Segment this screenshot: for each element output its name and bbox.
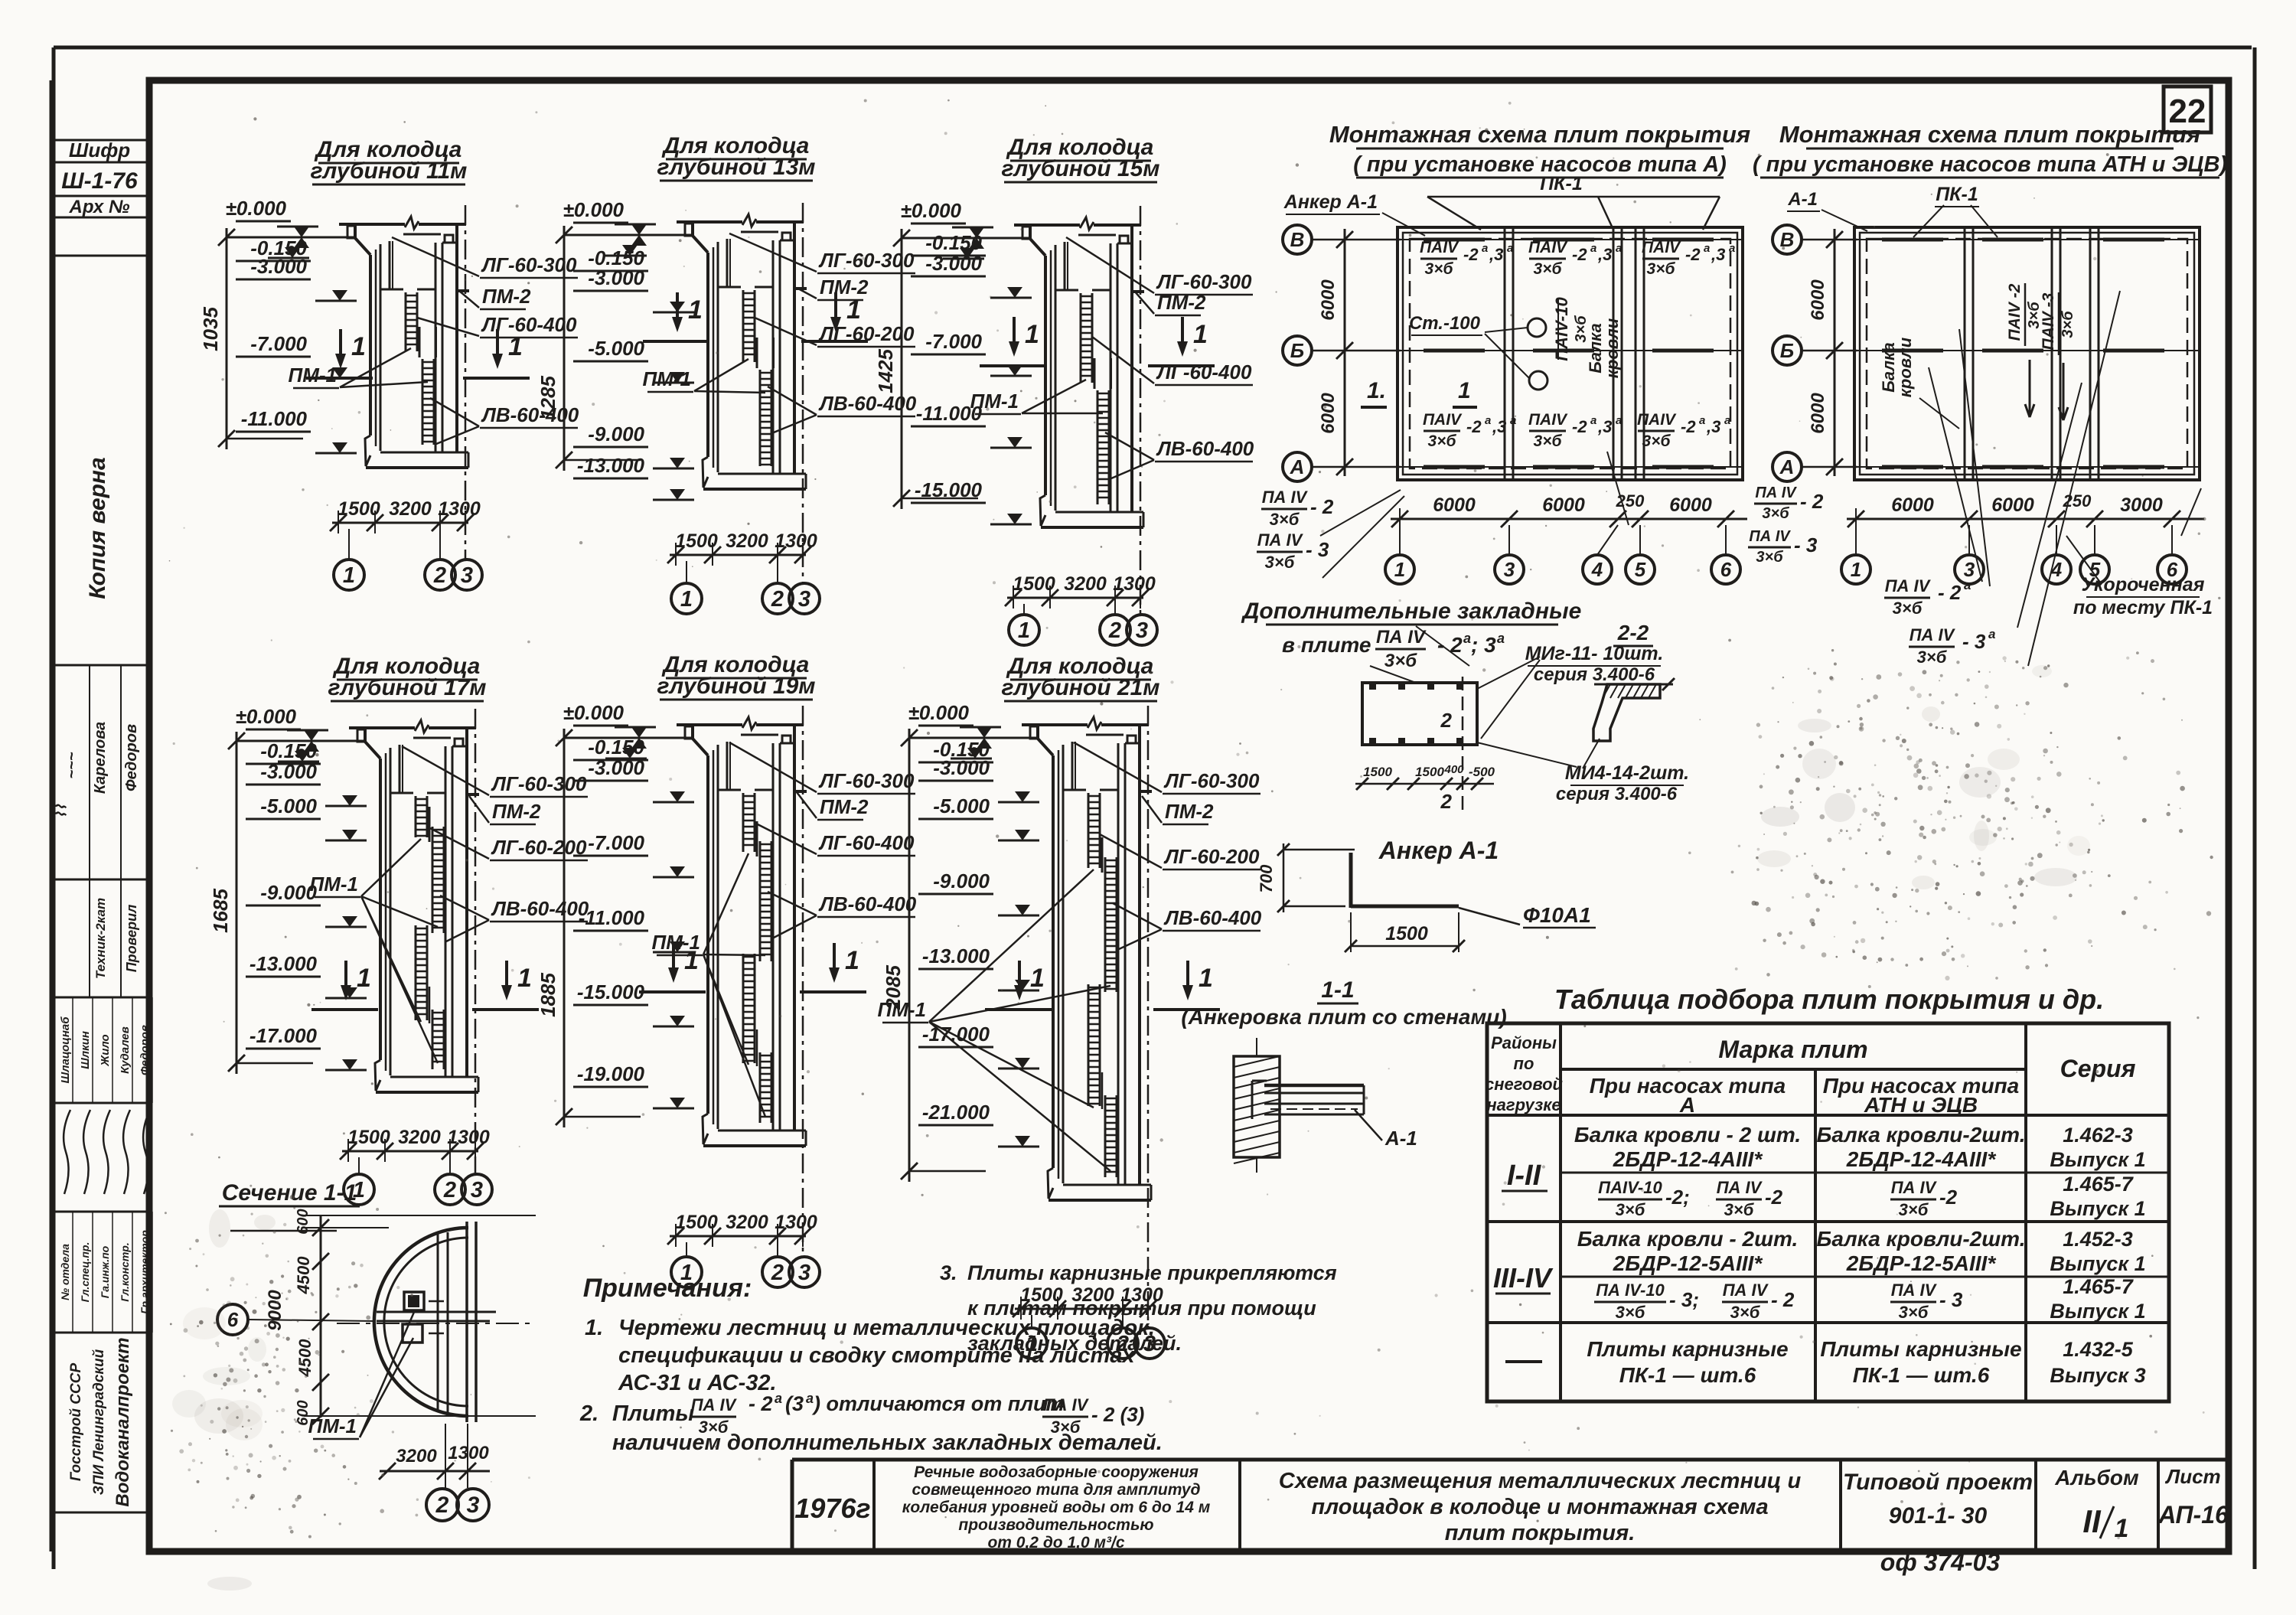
svg-text:3×б: 3×б	[1534, 260, 1563, 278]
svg-text:ПА IV: ПА IV	[1891, 1178, 1938, 1197]
svg-text:а: а	[1463, 631, 1471, 646]
svg-text:снеговой: снеговой	[1485, 1075, 1564, 1094]
svg-text:ПАIV-10: ПАIV-10	[1598, 1178, 1662, 1197]
svg-text:серия 3.400-6: серия 3.400-6	[1534, 664, 1655, 685]
svg-text:а: а	[1699, 414, 1705, 427]
svg-text:-2: -2	[1466, 417, 1482, 436]
svg-text:-17.000: -17.000	[249, 1024, 318, 1047]
svg-text:по: по	[1514, 1054, 1534, 1073]
svg-text:6000: 6000	[1318, 279, 1339, 321]
svg-text:Госстрой СССР: Госстрой СССР	[68, 1363, 84, 1482]
svg-text:ПА IV: ПА IV	[1749, 528, 1791, 545]
svg-text:Укороченная: Укороченная	[2082, 574, 2205, 595]
svg-text:ПМ-1: ПМ-1	[652, 931, 700, 954]
svg-text:3200: 3200	[389, 498, 432, 520]
svg-text:±0.000: ±0.000	[908, 701, 970, 724]
svg-text:-3.000: -3.000	[588, 756, 644, 779]
svg-text:3200: 3200	[726, 530, 768, 552]
svg-text:Га.инж.по: Га.инж.по	[99, 1245, 111, 1298]
svg-text:Плиты: Плиты	[612, 1401, 694, 1426]
svg-text:ПА IV: ПА IV	[1376, 627, 1427, 648]
svg-text:- 3: - 3	[1939, 1288, 1963, 1311]
svg-text:Шлацоцнаб: Шлацоцнаб	[59, 1016, 72, 1084]
svg-text:-2: -2	[1765, 1186, 1783, 1209]
svg-text:плит покрытия.: плит покрытия.	[1445, 1521, 1636, 1545]
svg-text:ПМ-1: ПМ-1	[878, 998, 926, 1021]
svg-text:Кудалев: Кудалев	[119, 1026, 132, 1074]
svg-text:-7.000: -7.000	[250, 332, 307, 355]
svg-text:производительностью: производительностью	[958, 1516, 1153, 1534]
svg-text:а: а	[775, 1391, 782, 1406]
svg-text:1: 1	[2115, 1514, 2129, 1543]
svg-text:5: 5	[1635, 558, 1646, 581]
svg-text:6: 6	[1720, 558, 1732, 581]
svg-text:ПК-1: ПК-1	[1540, 173, 1583, 194]
svg-text:1300: 1300	[438, 498, 481, 520]
svg-text:1300: 1300	[447, 1127, 490, 1148]
svg-text:ЛГ-60-400: ЛГ-60-400	[481, 313, 577, 336]
svg-text:2БДР-12-5АIII*: 2БДР-12-5АIII*	[1846, 1251, 1997, 1275]
svg-text:-3.000: -3.000	[260, 760, 317, 783]
svg-text:А-1: А-1	[1787, 189, 1818, 210]
svg-text:ПМ-2: ПМ-2	[820, 276, 869, 299]
svg-text:1.452-3: 1.452-3	[2063, 1228, 2133, 1251]
svg-text:6000: 6000	[1991, 494, 2034, 516]
svg-text:кровли: кровли	[1896, 337, 1915, 397]
svg-text:ПМ-2: ПМ-2	[1157, 291, 1206, 314]
svg-text:3×б: 3×б	[1917, 648, 1948, 667]
svg-text:Жило: Жило	[99, 1034, 112, 1066]
svg-text:Альбом: Альбом	[2054, 1466, 2139, 1489]
svg-text:А: А	[1679, 1093, 1695, 1117]
svg-text:Балка кровли-2шт.: Балка кровли-2шт.	[1817, 1123, 2026, 1147]
svg-text:1500: 1500	[347, 1127, 390, 1148]
svg-text:ПАIV: ПАIV	[1528, 411, 1568, 429]
svg-text:1500: 1500	[338, 498, 380, 520]
svg-text:3×б: 3×б	[1616, 1303, 1646, 1322]
svg-text:Балка кровли - 2 шт.: Балка кровли - 2 шт.	[1574, 1123, 1801, 1147]
svg-text:ПА IV: ПА IV	[1885, 576, 1932, 595]
svg-text:ЛВ-60-400: ЛВ-60-400	[1163, 906, 1262, 929]
svg-text:ПАIV: ПАIV	[1528, 239, 1568, 256]
svg-text:а: а	[1616, 414, 1622, 427]
svg-text:-7.000: -7.000	[588, 831, 644, 854]
svg-text:Водоканалпроект: Водоканалпроект	[113, 1337, 133, 1506]
svg-text:№ отдела: № отдела	[59, 1244, 71, 1300]
svg-text:ПА IV: ПА IV	[1717, 1178, 1763, 1197]
svg-text:ПМ-1: ПМ-1	[289, 364, 337, 387]
svg-text:ПА IV: ПА IV	[1910, 625, 1956, 644]
svg-text:2.: 2.	[579, 1401, 598, 1426]
svg-text:ПМ-2: ПМ-2	[482, 285, 531, 308]
svg-text:1300: 1300	[775, 530, 817, 552]
svg-text:Плиты карнизные: Плиты карнизные	[1820, 1337, 2021, 1361]
svg-text:; 3: ; 3	[1471, 633, 1496, 657]
svg-text:Арх №: Арх №	[69, 197, 130, 217]
svg-text:1500: 1500	[1385, 923, 1428, 945]
svg-text:-17.000: -17.000	[922, 1023, 990, 1046]
svg-text:а: а	[1988, 627, 1995, 641]
svg-text:±0.000: ±0.000	[563, 701, 625, 724]
svg-text:глубиной 19м: глубиной 19м	[657, 674, 816, 699]
svg-text:ПА IV: ПА IV	[1262, 488, 1309, 507]
svg-text:а: а	[1497, 631, 1505, 646]
svg-text:1285: 1285	[536, 376, 559, 420]
svg-text:Анкер А-1: Анкер А-1	[1283, 191, 1378, 213]
svg-text:3: 3	[1504, 558, 1515, 581]
svg-text:к плитам покрытия при помощи: к плитам покрытия при помощи	[967, 1297, 1316, 1320]
svg-text:Дополнительные закладные: Дополнительные закладные	[1241, 599, 1582, 624]
svg-text:⌇⌇: ⌇⌇	[53, 804, 70, 819]
svg-text:Плиты карнизные прикрепляются: Плиты карнизные прикрепляются	[967, 1261, 1337, 1284]
svg-text:Ш-1-76: Ш-1-76	[61, 168, 138, 194]
svg-text:Монтажная схема плит покрытия: Монтажная схема плит покрытия	[1779, 121, 2200, 148]
svg-text:ПК-1 — шт.6: ПК-1 — шт.6	[1853, 1363, 1990, 1387]
svg-text:3×б: 3×б	[1899, 1303, 1929, 1322]
svg-text:Гл.констр.: Гл.констр.	[119, 1242, 131, 1301]
svg-text:,3: ,3	[1492, 417, 1506, 436]
svg-text:±0.000: ±0.000	[236, 705, 297, 728]
svg-text:Ф10А1: Ф10А1	[1523, 903, 1591, 927]
svg-text:) отличаются от плит: ) отличаются от плит	[811, 1392, 1065, 1415]
svg-text:1500: 1500	[675, 1212, 718, 1233]
svg-text:а: а	[1729, 242, 1735, 255]
svg-text:-9.000: -9.000	[588, 423, 644, 445]
svg-text:1.: 1.	[585, 1316, 603, 1340]
svg-text:2: 2	[771, 587, 784, 612]
svg-text:1.432-5: 1.432-5	[2063, 1338, 2134, 1361]
svg-text:а: а	[1482, 242, 1488, 255]
svg-text:-3.000: -3.000	[925, 252, 982, 275]
svg-text:-9.000: -9.000	[933, 869, 990, 892]
svg-text:А: А	[1779, 455, 1795, 478]
svg-text:Серия: Серия	[2060, 1055, 2136, 1082]
svg-text:( при установке насосов типа А: ( при установке насосов типа АТН и ЭЦВ)	[1753, 152, 2227, 177]
svg-text:6000: 6000	[1433, 494, 1476, 516]
svg-text:6000: 6000	[1808, 279, 1828, 321]
svg-text:3×б: 3×б	[1384, 651, 1417, 671]
svg-text:- 2: - 2	[1771, 1288, 1795, 1311]
svg-text:Лист: Лист	[2164, 1465, 2220, 1488]
svg-text:6000: 6000	[1891, 494, 1934, 516]
svg-text:ЛГ-60-300: ЛГ-60-300	[818, 249, 915, 272]
svg-text:3×б: 3×б	[1425, 260, 1454, 278]
svg-text:Выпуск 1: Выпуск 1	[2050, 1252, 2145, 1275]
svg-text:ПАIV: ПАIV	[1420, 239, 1459, 256]
svg-text:1: 1	[1193, 320, 1208, 349]
svg-text:,3: ,3	[1706, 417, 1720, 436]
svg-text:(Анкеровка плит со стенами): (Анкеровка плит со стенами)	[1181, 1005, 1506, 1029]
svg-text:-5.000: -5.000	[588, 337, 644, 360]
svg-text:-13.000: -13.000	[577, 454, 645, 477]
svg-text:,3: ,3	[1711, 245, 1725, 264]
svg-text:Техник-2кат: Техник-2кат	[93, 898, 108, 979]
svg-text:Плиты карнизные: Плиты карнизные	[1587, 1337, 1788, 1361]
svg-text:Федоров: Федоров	[123, 724, 140, 791]
svg-text:4: 4	[1591, 558, 1603, 581]
svg-text:II: II	[2082, 1503, 2102, 1539]
svg-text:ЛГ-60-300: ЛГ-60-300	[1163, 769, 1260, 792]
svg-text:±0.000: ±0.000	[226, 197, 287, 220]
svg-text:ПА IV: ПА IV	[691, 1395, 738, 1414]
svg-text:- 3;: - 3;	[1669, 1288, 1699, 1311]
svg-text:ЛГ-60-400: ЛГ-60-400	[1156, 361, 1252, 383]
svg-text:глубиной 21м: глубиной 21м	[1002, 675, 1160, 700]
svg-text:Федоров: Федоров	[139, 1025, 152, 1075]
svg-text:3: 3	[467, 1493, 480, 1518]
svg-text:1: 1	[1394, 558, 1405, 581]
svg-text:901-1- 30: 901-1- 30	[1889, 1503, 1988, 1529]
svg-text:в плите: в плите	[1282, 633, 1371, 657]
svg-text:1: 1	[845, 946, 859, 975]
svg-text:1.462-3: 1.462-3	[2063, 1124, 2133, 1147]
svg-text:а: а	[1590, 414, 1596, 427]
svg-text:3200: 3200	[396, 1446, 437, 1467]
svg-text:глубиной 13м: глубиной 13м	[657, 155, 816, 180]
svg-text:-19.000: -19.000	[577, 1062, 645, 1085]
svg-text:ПА IV: ПА IV	[1043, 1395, 1090, 1414]
svg-text:±0.000: ±0.000	[563, 198, 625, 221]
svg-text:3×б: 3×б	[1428, 432, 1457, 450]
svg-text:3×б: 3×б	[1270, 510, 1300, 529]
svg-text:-0.150: -0.150	[925, 231, 982, 254]
svg-text:колебания уровней воды от 6 до: колебания уровней воды от 6 до 14 м	[902, 1499, 1211, 1516]
svg-text:3200: 3200	[726, 1212, 768, 1233]
svg-text:а: а	[1616, 242, 1622, 255]
svg-text:ЛГ-60-200: ЛГ-60-200	[1163, 845, 1260, 868]
svg-text:1.465-7: 1.465-7	[2063, 1275, 2135, 1298]
svg-text:Копия верна: Копия верна	[85, 457, 110, 599]
svg-text:Анкер А-1: Анкер А-1	[1378, 837, 1499, 864]
svg-text:1: 1	[517, 964, 532, 993]
svg-text:-3.000: -3.000	[933, 756, 990, 779]
svg-text:2: 2	[1440, 790, 1453, 813]
svg-text:6000: 6000	[1542, 494, 1585, 516]
svg-text:ПМ-2: ПМ-2	[1165, 800, 1214, 823]
svg-text:Шлкин: Шлкин	[79, 1031, 92, 1069]
svg-text:1300: 1300	[448, 1443, 489, 1463]
svg-text:Ст.-100: Ст.-100	[1409, 313, 1481, 334]
svg-text:Монтажная схема плит покрытия: Монтажная схема плит покрытия	[1329, 121, 1750, 148]
svg-text:ПАIV -2: ПАIV -2	[2006, 283, 2024, 341]
svg-text:-2: -2	[1681, 417, 1696, 436]
svg-text:а: а	[1590, 242, 1596, 255]
svg-text:ПАIV: ПАIV	[1642, 239, 1681, 256]
svg-text:3×б: 3×б	[1756, 549, 1783, 566]
svg-text:Выпуск 1: Выпуск 1	[2050, 1197, 2145, 1220]
svg-text:а: а	[1485, 414, 1491, 427]
svg-text:Таблица подбора плит покрытия: Таблица подбора плит покрытия и др.	[1554, 984, 2104, 1015]
svg-text:- 2: - 2	[1310, 495, 1334, 518]
svg-text:Б: Б	[1780, 339, 1794, 362]
svg-text:ЛГ-60-200: ЛГ-60-200	[491, 836, 587, 859]
svg-text:наличием дополнительных заклад: наличием дополнительных закладных детале…	[612, 1431, 1163, 1455]
svg-text:~~~: ~~~	[64, 752, 80, 778]
svg-text:ЛГ-60-300: ЛГ-60-300	[481, 253, 577, 276]
svg-text:-2: -2	[1685, 245, 1701, 264]
svg-text:АТН и ЭЦВ: АТН и ЭЦВ	[1864, 1093, 1978, 1117]
svg-text:2: 2	[1440, 709, 1453, 732]
svg-text:700: 700	[1257, 864, 1276, 892]
svg-text:Сечение 1-1: Сечение 1-1	[222, 1180, 357, 1206]
svg-text:а: а	[1704, 242, 1710, 255]
svg-text:1500: 1500	[675, 530, 718, 552]
svg-text:3×б: 3×б	[1893, 599, 1923, 618]
svg-text:ПА IV: ПА IV	[1891, 1281, 1938, 1300]
svg-text:1: 1	[680, 587, 693, 612]
svg-text:9000: 9000	[265, 1290, 285, 1331]
svg-text:-13.000: -13.000	[249, 952, 318, 975]
svg-text:-9.000: -9.000	[260, 881, 317, 904]
svg-text:а: а	[1507, 242, 1513, 255]
svg-text:1: 1	[343, 563, 355, 588]
svg-text:- 3: - 3	[1962, 630, 1986, 653]
svg-text:- 2: - 2	[1800, 490, 1824, 513]
svg-text:2БДР-12-4АIII*: 2БДР-12-4АIII*	[1846, 1147, 1997, 1171]
svg-text:Типовой проект: Типовой проект	[1843, 1470, 2033, 1495]
svg-text:площадок в колодце и монтажная: площадок в колодце и монтажная схема	[1311, 1495, 1768, 1519]
svg-text:1: 1	[351, 332, 366, 361]
svg-text:,3: ,3	[1597, 417, 1612, 436]
svg-text:серия 3.400-6: серия 3.400-6	[1556, 784, 1678, 804]
svg-text:от 0,2 до 1,0 м³/с: от 0,2 до 1,0 м³/с	[987, 1534, 1124, 1551]
svg-text:Выпуск 3: Выпуск 3	[2050, 1364, 2145, 1387]
svg-text:3×б: 3×б	[1899, 1200, 1929, 1219]
svg-text:ПМ-1: ПМ-1	[643, 367, 691, 390]
svg-text:ПАIV -3: ПАIV -3	[2040, 292, 2057, 350]
svg-text:АП-16: АП-16	[2157, 1501, 2229, 1529]
svg-text:Балка кровли-2шт.: Балка кровли-2шт.	[1817, 1227, 2026, 1251]
svg-text:1.: 1.	[1367, 378, 1386, 403]
svg-text:А: А	[1290, 455, 1305, 478]
svg-text:-15.000: -15.000	[577, 980, 645, 1003]
svg-text:ПК-1 — шт.6: ПК-1 — шт.6	[1619, 1363, 1756, 1387]
svg-text:А-1: А-1	[1384, 1127, 1417, 1150]
svg-text:2: 2	[443, 1178, 456, 1202]
svg-text:-13.000: -13.000	[922, 945, 990, 967]
svg-text:ЛВ-60-400: ЛВ-60-400	[491, 897, 589, 920]
svg-text:1: 1	[688, 295, 703, 325]
svg-text:2: 2	[771, 1261, 784, 1285]
svg-text:-2;: -2;	[1665, 1186, 1690, 1209]
svg-text:Схема размещения металлических: Схема размещения металлических лестниц и	[1279, 1469, 1802, 1493]
svg-text:ЛГ-60-400: ЛГ-60-400	[818, 831, 915, 854]
svg-text:1685: 1685	[209, 889, 232, 933]
svg-text:1500: 1500	[1013, 573, 1055, 595]
svg-text:нагрузке: нагрузке	[1486, 1095, 1561, 1114]
svg-text:совмещенного типа для амплитуд: совмещенного типа для амплитуд	[912, 1481, 1200, 1499]
svg-text:,3: ,3	[1597, 245, 1612, 264]
svg-text:4500: 4500	[294, 1256, 313, 1295]
svg-text:ЛВ-60-400: ЛВ-60-400	[1156, 437, 1254, 460]
svg-text:3×б: 3×б	[1647, 260, 1676, 278]
svg-text:1: 1	[508, 332, 523, 361]
svg-text:1425: 1425	[874, 349, 897, 393]
svg-text:ПАIV: ПАIV	[1637, 411, 1677, 429]
svg-text:ПМ-2: ПМ-2	[820, 795, 869, 818]
svg-text:1500: 1500	[1415, 765, 1444, 779]
svg-text:-7.000: -7.000	[925, 330, 982, 353]
svg-text:1035: 1035	[199, 307, 222, 351]
svg-text:3×б: 3×б	[1265, 553, 1296, 572]
svg-text:Гл.спец.пр.: Гл.спец.пр.	[79, 1242, 91, 1303]
svg-text:±0.000: ±0.000	[901, 199, 962, 222]
svg-text:ПА IV: ПА IV	[1257, 530, 1304, 550]
svg-text:3: 3	[1136, 618, 1148, 643]
svg-text:ЛГ-60-300: ЛГ-60-300	[491, 772, 587, 795]
svg-text:1500: 1500	[1363, 765, 1392, 779]
svg-text:3×б: 3×б	[1724, 1200, 1755, 1219]
svg-text:3×б: 3×б	[2060, 311, 2076, 338]
svg-text:В: В	[1290, 228, 1305, 251]
svg-text:а: а	[1964, 578, 1971, 592]
svg-text:2БДР-12-5АIII*: 2БДР-12-5АIII*	[1613, 1251, 1763, 1275]
svg-text:- 3: - 3	[1794, 533, 1818, 556]
svg-text:Карелова: Карелова	[92, 722, 109, 794]
svg-text:3×б: 3×б	[1534, 432, 1563, 450]
svg-text:-3.000: -3.000	[250, 255, 307, 278]
svg-text:- 2: - 2	[748, 1392, 773, 1415]
svg-text:- 2: - 2	[1938, 581, 1962, 604]
svg-text:-5.000: -5.000	[260, 794, 317, 817]
svg-text:- 2 (3): - 2 (3)	[1091, 1403, 1144, 1426]
svg-text:1: 1	[1199, 964, 1213, 993]
svg-text:ПА IV: ПА IV	[1723, 1281, 1769, 1300]
svg-text:,3: ,3	[1489, 245, 1503, 264]
svg-text:600: 600	[295, 1209, 311, 1234]
svg-text:1300: 1300	[775, 1212, 817, 1233]
svg-text:3200: 3200	[1064, 573, 1107, 595]
svg-text:1300: 1300	[1113, 573, 1156, 595]
svg-text:(3: (3	[785, 1392, 804, 1415]
svg-text:ПК-1: ПК-1	[1936, 184, 1978, 205]
svg-text:глубиной 17м: глубиной 17м	[328, 675, 487, 700]
svg-text:ЛГ-60-200: ЛГ-60-200	[818, 322, 915, 345]
svg-text:-3.000: -3.000	[588, 266, 644, 289]
svg-text:3: 3	[798, 587, 810, 612]
svg-text:1: 1	[1851, 558, 1861, 581]
svg-text:3.: 3.	[940, 1261, 957, 1284]
svg-text:3: 3	[461, 563, 473, 588]
svg-text:Б: Б	[1290, 339, 1304, 362]
svg-text:Марка плит: Марка плит	[1718, 1036, 1867, 1063]
svg-text:глубиной 15м: глубиной 15м	[1002, 156, 1160, 181]
svg-text:кровли: кровли	[1603, 318, 1622, 378]
svg-text:по месту ПК-1: по месту ПК-1	[2073, 597, 2213, 618]
svg-text:Примечания:: Примечания:	[583, 1274, 752, 1303]
svg-text:3×б: 3×б	[1762, 505, 1789, 522]
svg-text:2БДР-12-4АIII*: 2БДР-12-4АIII*	[1613, 1147, 1763, 1171]
svg-text:ПА IV: ПА IV	[1755, 484, 1797, 501]
svg-text:1-1: 1-1	[1321, 977, 1354, 1003]
svg-text:ПМ-1: ПМ-1	[310, 873, 358, 896]
svg-text:а: а	[806, 1391, 814, 1406]
svg-text:закладных деталей.: закладных деталей.	[967, 1332, 1182, 1355]
svg-text:1976г: 1976г	[794, 1493, 870, 1524]
svg-text:-2: -2	[1939, 1186, 1958, 1209]
svg-text:Выпуск 1: Выпуск 1	[2050, 1300, 2145, 1323]
svg-text:-11.000: -11.000	[579, 906, 645, 929]
svg-text:1: 1	[1018, 618, 1030, 643]
svg-text:ПМ-2: ПМ-2	[492, 800, 541, 823]
svg-text:ПА IV-10: ПА IV-10	[1596, 1281, 1665, 1300]
svg-text:Речные водозаборные сооружения: Речные водозаборные сооружения	[914, 1463, 1199, 1481]
svg-text:1: 1	[357, 964, 371, 993]
svg-text:3×б: 3×б	[1730, 1303, 1761, 1322]
svg-text:1.465-7: 1.465-7	[2063, 1173, 2135, 1196]
svg-text:3×б: 3×б	[1616, 1200, 1646, 1219]
svg-text:6000: 6000	[1669, 494, 1712, 516]
